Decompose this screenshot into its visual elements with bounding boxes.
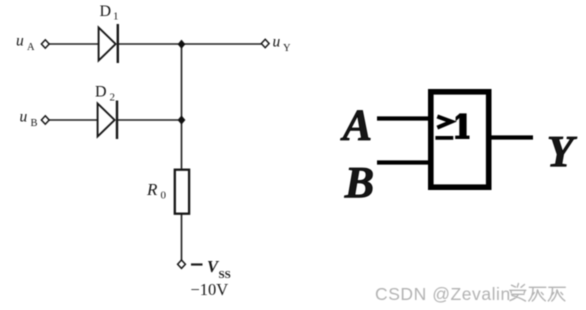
svg-text:1: 1 bbox=[113, 11, 119, 23]
svg-text:A: A bbox=[340, 101, 372, 150]
svg-text:R: R bbox=[146, 180, 158, 199]
svg-text:u: u bbox=[16, 33, 24, 50]
svg-text:A: A bbox=[27, 42, 35, 53]
svg-text:CSDN @Zevalin: CSDN @Zevalin bbox=[375, 284, 511, 304]
svg-text:B: B bbox=[344, 158, 374, 207]
svg-text:2: 2 bbox=[110, 91, 116, 103]
svg-text:D: D bbox=[100, 3, 112, 20]
svg-text:0: 0 bbox=[161, 190, 167, 202]
svg-text:D: D bbox=[95, 84, 107, 101]
svg-text:−10V: −10V bbox=[191, 280, 229, 299]
svg-text:Y: Y bbox=[547, 127, 578, 176]
svg-text:B: B bbox=[31, 118, 38, 129]
svg-text:u: u bbox=[273, 34, 281, 51]
svg-text:Y: Y bbox=[283, 43, 291, 54]
svg-text:u: u bbox=[20, 109, 28, 126]
